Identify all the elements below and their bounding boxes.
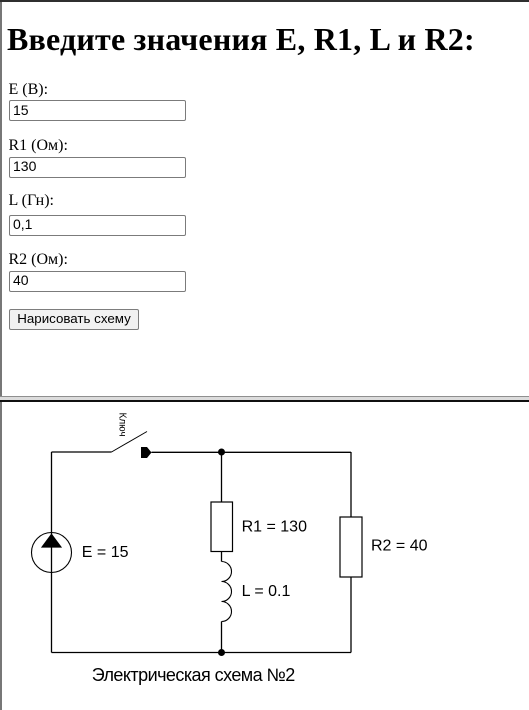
input E bbox=[9, 100, 186, 121]
button bbox=[9, 309, 139, 330]
svg-text:R1 = 130: R1 = 130 bbox=[242, 518, 307, 535]
node dot top bbox=[218, 449, 225, 456]
switch blade bbox=[112, 432, 148, 453]
input R1 bbox=[9, 157, 186, 178]
node dot bottom bbox=[218, 649, 225, 656]
resistor R1 bbox=[211, 502, 233, 552]
right wire lower bbox=[350, 577, 352, 653]
wire top right segment bbox=[152, 451, 352, 453]
label E bbox=[9, 81, 49, 99]
middle wire upper bbox=[221, 452, 223, 502]
middle wire lower bbox=[221, 622, 223, 653]
frame borders and divider bbox=[0, 0, 529, 2]
label L bbox=[9, 192, 54, 210]
right wire upper bbox=[350, 452, 352, 517]
source E circle bbox=[32, 533, 72, 573]
svg-text:Электрическая схема №2: Электрическая схема №2 bbox=[92, 665, 296, 685]
switch contact arrow bbox=[141, 447, 152, 458]
svg-text:R2 = 40: R2 = 40 bbox=[371, 538, 428, 555]
source E arrow triangle bbox=[41, 533, 62, 547]
bottom wire bbox=[52, 652, 352, 654]
wire top left segment bbox=[52, 451, 112, 453]
inductor L coil bbox=[222, 562, 232, 622]
top frame with form bbox=[0, 0, 529, 396]
input R2 bbox=[9, 271, 186, 292]
input L bbox=[9, 215, 186, 236]
left wire bbox=[51, 452, 53, 653]
heading bbox=[7, 21, 475, 58]
svg-text:E = 15: E = 15 bbox=[82, 544, 129, 561]
bottom frame with circuit canvas bbox=[0, 402, 529, 710]
svg-text:Ключ: Ключ bbox=[117, 413, 128, 437]
svg-text:L = 0.1: L = 0.1 bbox=[242, 583, 291, 600]
middle wire between R1 and L bbox=[221, 552, 223, 562]
resistor R2 bbox=[340, 517, 362, 577]
label R1 bbox=[9, 137, 68, 155]
label R2 bbox=[9, 251, 68, 269]
